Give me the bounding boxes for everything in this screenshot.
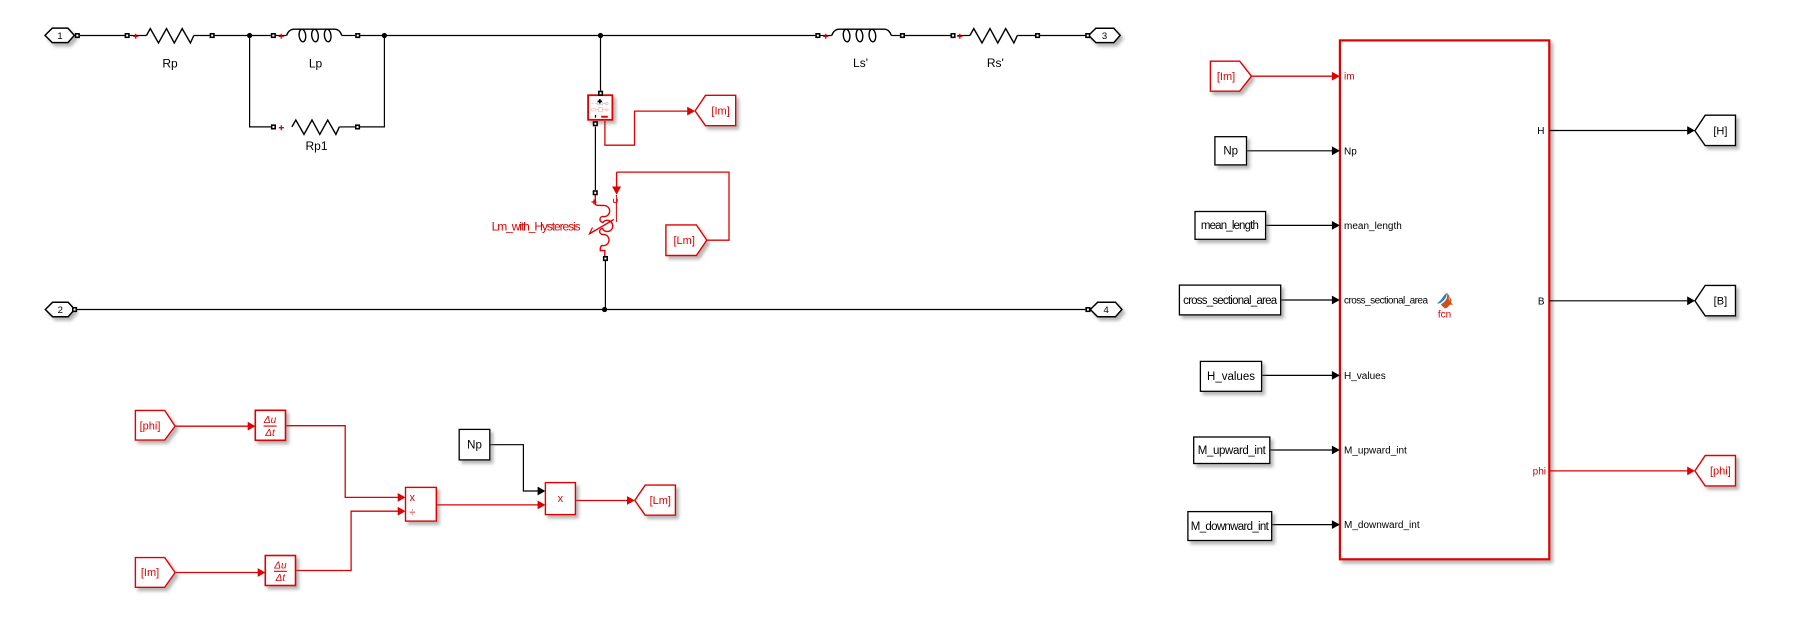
svg-text:fcn: fcn xyxy=(1438,310,1451,321)
svg-text:Rp: Rp xyxy=(162,57,178,71)
svg-text:H_values: H_values xyxy=(1344,371,1386,382)
svg-text:Δt: Δt xyxy=(264,428,276,439)
svg-text:Rp1: Rp1 xyxy=(305,139,327,153)
svg-text:[Lm]: [Lm] xyxy=(673,235,694,247)
svg-text:x: x xyxy=(410,492,416,504)
svg-text:Rs': Rs' xyxy=(987,56,1004,70)
svg-text:Lm_with_Hysteresis: Lm_with_Hysteresis xyxy=(492,220,581,234)
svg-text:3: 3 xyxy=(1102,31,1107,42)
svg-text:M_downward_int: M_downward_int xyxy=(1344,520,1420,531)
svg-text:Ls': Ls' xyxy=(853,56,868,70)
svg-text:H_values: H_values xyxy=(1207,371,1255,383)
svg-text:÷: ÷ xyxy=(409,506,415,518)
svg-text:Δt: Δt xyxy=(275,573,287,584)
svg-text:[Lm]: [Lm] xyxy=(650,495,671,507)
svg-text:[B]: [B] xyxy=(1714,296,1727,308)
svg-text:[H]: [H] xyxy=(1713,126,1727,138)
svg-text:B: B xyxy=(1538,296,1545,307)
svg-text:[Im]: [Im] xyxy=(141,567,159,579)
svg-text:M_upward_int: M_upward_int xyxy=(1198,445,1267,457)
svg-text:x: x xyxy=(558,493,564,505)
svg-text:cross_sectional_area: cross_sectional_area xyxy=(1344,296,1428,307)
svg-text:H: H xyxy=(1537,126,1544,137)
svg-text:1: 1 xyxy=(57,31,62,42)
svg-text:im: im xyxy=(1344,72,1355,83)
svg-text:M_upward_int: M_upward_int xyxy=(1344,446,1407,457)
svg-text:[Im]: [Im] xyxy=(1217,71,1235,83)
svg-text:Np: Np xyxy=(1344,146,1357,157)
svg-text:Lp: Lp xyxy=(309,57,323,71)
svg-text:mean_length: mean_length xyxy=(1201,220,1259,232)
svg-text:2: 2 xyxy=(58,305,63,316)
svg-text:Np: Np xyxy=(467,440,482,452)
svg-text:cross_sectional_area: cross_sectional_area xyxy=(1183,295,1278,307)
svg-text:mean_length: mean_length xyxy=(1344,221,1402,232)
svg-text:phi: phi xyxy=(1533,466,1546,477)
svg-text:Δu: Δu xyxy=(263,415,277,426)
svg-text:M_downward_int: M_downward_int xyxy=(1191,521,1270,533)
svg-text:[phi]: [phi] xyxy=(1710,466,1731,478)
svg-text:[Im]: [Im] xyxy=(711,106,729,118)
svg-text:[phi]: [phi] xyxy=(140,420,161,432)
svg-text:Δu: Δu xyxy=(273,560,287,571)
svg-text:Np: Np xyxy=(1223,146,1238,158)
svg-text:4: 4 xyxy=(1104,305,1109,316)
